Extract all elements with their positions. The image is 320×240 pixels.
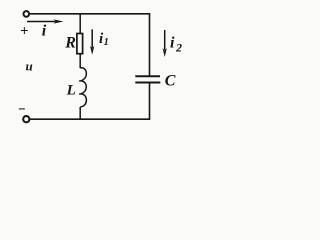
current arrow i [27, 19, 64, 23]
svg-text:i: i [42, 23, 47, 40]
capacitor C top plate [135, 75, 160, 77]
wire middle branch upper [79, 14, 81, 34]
wire right branch lower [149, 83, 151, 120]
wire bottom [30, 118, 150, 120]
wire top [30, 13, 150, 15]
inductor L coil [79, 68, 86, 107]
svg-text:L: L [66, 83, 76, 99]
terminal top-left [24, 11, 30, 17]
svg-text:C: C [165, 73, 176, 90]
current arrow i1 [90, 29, 94, 55]
capacitor C bottom plate [135, 82, 160, 84]
wire inductor to bottom [79, 107, 81, 119]
label minus [19, 108, 25, 110]
svg-text:u: u [26, 59, 33, 74]
terminal bottom-left [23, 116, 29, 122]
svg-text:R: R [64, 34, 76, 51]
current arrow i2 [163, 30, 167, 57]
svg-text:+: + [20, 23, 28, 39]
svg-text:i1: i1 [99, 31, 109, 48]
wire resistor to inductor [79, 54, 81, 68]
resistor R [77, 34, 83, 54]
svg-text:i2: i2 [170, 34, 182, 54]
wire right branch upper [149, 13, 151, 76]
